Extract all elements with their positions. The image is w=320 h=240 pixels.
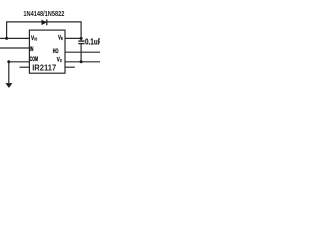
- svg-text:S: S: [60, 58, 62, 63]
- svg-text:HO: HO: [53, 48, 59, 55]
- svg-text:B: B: [61, 36, 63, 41]
- svg-text:CC: CC: [34, 37, 37, 42]
- svg-text:IN: IN: [30, 46, 34, 53]
- svg-text:1N4148/1N5822: 1N4148/1N5822: [23, 9, 64, 18]
- svg-text:0.1uF: 0.1uF: [85, 38, 100, 47]
- svg-text:IR2117: IR2117: [32, 62, 56, 72]
